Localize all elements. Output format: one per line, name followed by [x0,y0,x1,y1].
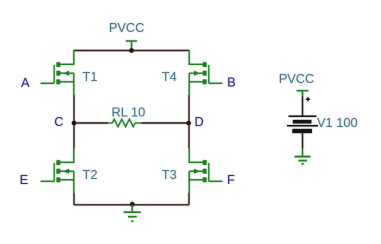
svg-text:V1 100: V1 100 [317,115,358,130]
wire left rail upper (T1 source to node C) [73,95,75,123]
svg-text:PVCC: PVCC [109,20,145,35]
svg-text:T3: T3 [162,167,177,182]
node D junction dot [186,121,191,126]
battery V1 plates [287,116,318,133]
svg-text:B: B [227,75,236,90]
svg-text:T4: T4 [162,69,177,84]
node C junction dot [72,121,77,126]
svg-text:A: A [21,75,30,90]
wire V1 bottom lead [302,133,304,148]
wire left rail bottom (T2 source to bottom rail) [73,193,75,205]
svg-text:D: D [195,114,204,129]
junction dot ground tap [130,202,135,207]
svg-text:E: E [20,172,29,187]
svg-text:T1: T1 [83,69,98,84]
junction dot PVCC tap [129,48,134,53]
wire top rail [74,50,189,52]
svg-text:T2: T2 [83,167,98,182]
power rail symbol PVCC [126,41,137,51]
power rail symbol PVCC (V1 branch) [297,91,309,97]
battery V1 plus sign [306,97,310,101]
transistor T2 [41,148,74,193]
wire bottom rail [74,204,189,206]
svg-text:RL 10: RL 10 [112,104,146,119]
wire mid right (resistor to node D) [141,122,189,124]
wire mid left (node C to resistor) [74,122,108,124]
transistor T4 [189,50,222,95]
wire right rail bottom (T3 source to bottom rail) [188,193,190,205]
wire V1 top lead [302,97,304,116]
transistor T1 [41,50,74,95]
wire left rail lower (node C to T2 drain) [73,123,75,149]
transistor T3 [189,148,222,193]
wire right rail lower (node D to T3 drain) [188,123,190,149]
svg-text:C: C [54,114,63,129]
resistor RL [108,119,141,127]
ground (main) [124,205,141,222]
ground (V1 branch) [295,149,311,164]
svg-text:F: F [227,172,235,187]
wire right rail upper (T4 source to node D) [188,95,190,123]
svg-text:PVCC: PVCC [279,71,315,86]
